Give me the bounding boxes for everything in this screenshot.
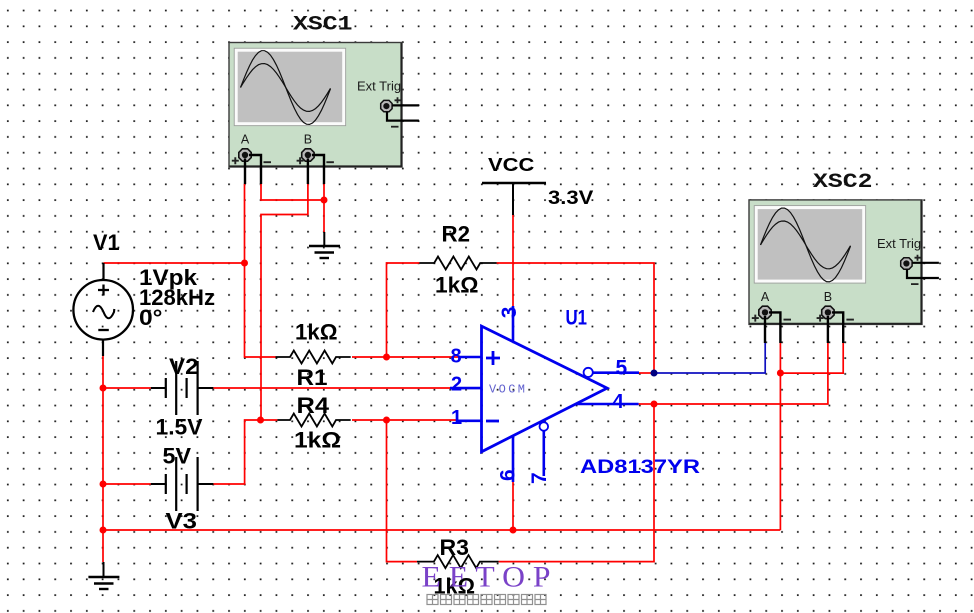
junction R4 input node (260.5,420) bbox=[257, 417, 264, 424]
wire pin 4 junction red stub bbox=[639, 403, 654, 405]
terminal stub A- hook bbox=[249, 155, 261, 184]
junction pin 1 node (386.5,420) bbox=[383, 417, 390, 424]
svg-text:1kΩ: 1kΩ bbox=[294, 428, 341, 453]
svg-text:R4: R4 bbox=[297, 393, 330, 418]
junction A-/B- ground (324,200) bbox=[321, 197, 328, 204]
wire R2 right leg down to pin 5 node (red) bbox=[497, 263, 654, 373]
junction node A (244.5,263) bbox=[241, 260, 248, 267]
battery V2 bbox=[151, 361, 214, 415]
socket B XSC2 bbox=[817, 306, 854, 321]
resistor R1 bbox=[276, 351, 351, 364]
wire V3 left lead to rail (red) bbox=[103, 483, 151, 485]
svg-text:1kΩ: 1kΩ bbox=[295, 320, 338, 345]
svg-text:VCC: VCC bbox=[488, 154, 534, 175]
resistor R2 bbox=[419, 257, 496, 270]
wire XSC2 A- down to ground row (red) bbox=[779, 343, 781, 530]
Ext Trig socket XSC2 bbox=[901, 255, 921, 284]
Ext Trig socket XSC1 bbox=[381, 97, 401, 126]
svg-text:8: 8 bbox=[451, 345, 462, 367]
junction pin 8 node (386.5,357) bbox=[383, 354, 390, 361]
ground under XSC1 bbox=[309, 232, 340, 258]
watermark chinese line bbox=[427, 595, 546, 605]
terminal stub A+ XSC2 bbox=[764, 316, 766, 343]
battery V3 bbox=[151, 457, 214, 511]
svg-text:B: B bbox=[304, 133, 312, 147]
junction pin 6 / ground row (513,530) bbox=[510, 527, 517, 534]
socket A XSC1 bbox=[232, 149, 271, 164]
wire R1 output to pin 8 node (red) bbox=[352, 356, 458, 358]
svg-text:2: 2 bbox=[451, 373, 462, 395]
svg-text:V1: V1 bbox=[93, 230, 120, 255]
wire XSC2 B- joins A- line (red) bbox=[780, 343, 843, 373]
wire V2 output to op-amp pin 2 (red) bbox=[213, 387, 450, 389]
svg-text:A: A bbox=[761, 290, 770, 304]
wire V1 top to node A (red) bbox=[104, 262, 245, 264]
junction pin 4 node (654,404) bbox=[651, 401, 658, 408]
svg-text:1: 1 bbox=[451, 407, 462, 429]
svg-text:0°: 0° bbox=[139, 305, 163, 330]
svg-text:6: 6 bbox=[497, 469, 520, 481]
socket A XSC2 bbox=[752, 306, 791, 321]
oscilloscope XSC1 bbox=[229, 14, 419, 185]
socket B XSC1 bbox=[297, 149, 334, 164]
op-amp U1 AD8137YR bbox=[450, 306, 639, 482]
svg-text:7: 7 bbox=[528, 472, 551, 484]
terminal stub B- hook XSC2 bbox=[832, 312, 843, 343]
svg-text:AD8137YR: AD8137YR bbox=[580, 457, 700, 478]
oscilloscope XSC2 bbox=[749, 171, 939, 343]
resistor R4 bbox=[277, 414, 350, 427]
junction rail/V3 (103,484) bbox=[100, 481, 107, 488]
svg-text:R3: R3 bbox=[440, 535, 470, 560]
terminal stub A- hook XSC2 bbox=[769, 312, 780, 343]
svg-text:3: 3 bbox=[498, 307, 521, 319]
svg-text:1kΩ: 1kΩ bbox=[435, 273, 479, 298]
resistor R3 bbox=[417, 555, 499, 568]
terminal stub A+ bbox=[244, 159, 246, 185]
terminal stub B+ bbox=[307, 159, 309, 185]
svg-text:5: 5 bbox=[616, 357, 628, 380]
VCC power symbol bbox=[482, 183, 546, 215]
wire scope B+ jog down to R4 input node (red) bbox=[261, 184, 308, 420]
wire pin 4 output to XSC2 B+ (red) bbox=[654, 343, 828, 404]
junction rail/ground row (103,530) bbox=[100, 527, 107, 534]
wire V1 bottom rail down left side (red) bbox=[102, 356, 104, 562]
wire R3 right leg up to pin 4 node (red) bbox=[499, 404, 654, 562]
wire R3 left leg up to pin 1 node (red) bbox=[387, 420, 418, 562]
svg-text:3.3V: 3.3V bbox=[548, 187, 593, 209]
junction pin 5 node navy (654,373) bbox=[651, 370, 658, 377]
svg-text:5V: 5V bbox=[163, 444, 192, 469]
svg-text:V3: V3 bbox=[166, 509, 198, 534]
svg-text:B: B bbox=[824, 290, 832, 304]
wire VCC supply down to pin 3 (red) bbox=[512, 215, 514, 306]
wire pin 5 output to XSC2 A+ (blue) bbox=[654, 343, 765, 373]
svg-text:R1: R1 bbox=[297, 365, 328, 390]
wire scope A- to ground net (red) bbox=[261, 184, 324, 200]
wire R4 output to pin 1 node (red) bbox=[352, 419, 458, 421]
AC source V1 bbox=[73, 263, 133, 356]
svg-text:Ext Trig: Ext Trig bbox=[877, 236, 921, 251]
svg-text:E E T O P: E E T O P bbox=[422, 561, 551, 594]
svg-text:1.5V: 1.5V bbox=[156, 415, 203, 440]
svg-text:VOCM: VOCM bbox=[489, 383, 527, 397]
junction rail/V2 (103,388) bbox=[100, 385, 107, 392]
svg-text:V2: V2 bbox=[169, 354, 199, 379]
wire scope B- down to ground symbol (red) bbox=[323, 184, 325, 232]
Ext Trig stub wires XSC1 bbox=[392, 104, 419, 106]
svg-text:XSC1: XSC1 bbox=[293, 14, 353, 37]
wire pin 6 down to ground row (red) bbox=[512, 482, 514, 530]
Ext Trig stub wires XSC2 bbox=[912, 262, 939, 264]
junction XSC2 A-/B- (780.4,373) bbox=[777, 370, 784, 377]
svg-text:XSC2: XSC2 bbox=[813, 171, 873, 194]
terminal stub B+ XSC2 bbox=[827, 316, 829, 343]
svg-text:Ext Trig: Ext Trig bbox=[357, 79, 401, 94]
wire scope A+ down through node A to R1 input (red) bbox=[245, 184, 276, 357]
terminal stub B- hook bbox=[312, 155, 324, 184]
svg-text:R2: R2 bbox=[442, 222, 471, 247]
svg-text:4: 4 bbox=[612, 390, 624, 413]
wire V2 left lead to rail (red) bbox=[103, 387, 151, 389]
wire pin 5 stub to junction (red) bbox=[639, 372, 654, 374]
wire V3+ riser to R4 node (red) bbox=[213, 420, 260, 484]
wire ground bottom row (red) bbox=[103, 529, 780, 531]
wire R2 left leg down to pin 8 node (red) bbox=[387, 263, 420, 357]
ground bottom left bbox=[88, 562, 119, 589]
svg-text:A: A bbox=[241, 133, 250, 147]
svg-text:U1: U1 bbox=[566, 307, 588, 330]
